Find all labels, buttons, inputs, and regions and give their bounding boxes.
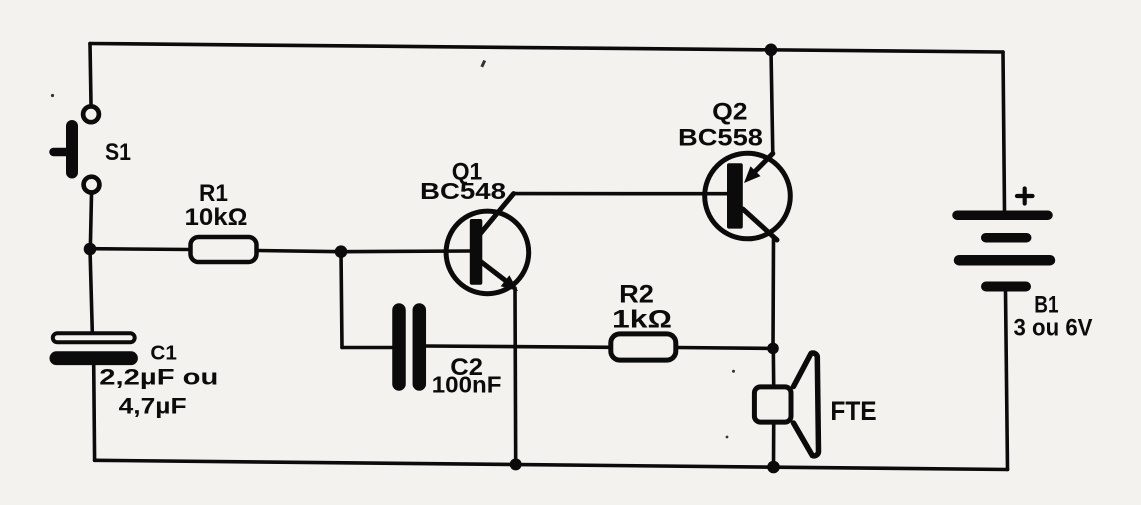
svg-text:R1: R1 xyxy=(199,180,228,207)
transistor Q1 xyxy=(446,194,529,294)
svg-text:BC548: BC548 xyxy=(420,178,506,204)
transistor Q2 xyxy=(705,153,791,240)
wire B1 negative plate to bottom rail xyxy=(1006,291,1008,470)
wire Q1 emitter down to node E xyxy=(513,288,517,464)
capacitor C1 xyxy=(53,333,135,358)
wire node B to Q1 base xyxy=(341,249,471,253)
wire to C2 left plate xyxy=(342,346,393,350)
wire node A down to C1 xyxy=(90,249,92,332)
wire top rail xyxy=(90,44,1003,53)
wire R1 to node B xyxy=(257,251,341,252)
node D xyxy=(767,461,780,474)
svg-text:10kΩ: 10kΩ xyxy=(185,204,248,231)
wire node B down xyxy=(341,252,342,348)
wire R2 to node C xyxy=(676,346,773,350)
node F (top rail junction) xyxy=(765,44,778,57)
battery B1 xyxy=(957,215,1050,286)
switch S1 xyxy=(54,106,100,192)
svg-text:2,2µF ou: 2,2µF ou xyxy=(99,365,218,390)
plus sign xyxy=(1017,189,1033,204)
svg-text:4,7µF: 4,7µF xyxy=(119,394,187,419)
wire top rail junction down to Q2 emitter xyxy=(771,50,773,154)
resistor R1 xyxy=(191,237,257,262)
wire node C to speaker xyxy=(771,348,775,386)
wire Q1 collector to Q2 base xyxy=(514,192,728,196)
node A xyxy=(84,243,97,256)
resistor R2 xyxy=(611,334,676,360)
svg-text:FTE: FTE xyxy=(830,396,876,426)
speaker FTE xyxy=(754,353,818,456)
wire Q2 collector down to node C xyxy=(771,240,775,349)
svg-text:R2: R2 xyxy=(619,281,654,309)
wire C1 to bottom rail xyxy=(92,364,97,460)
svg-text:BC558: BC558 xyxy=(678,125,763,152)
wire left vertical to S1 xyxy=(90,44,91,105)
svg-text:C1: C1 xyxy=(150,343,177,365)
svg-text:1kΩ: 1kΩ xyxy=(612,306,672,334)
wire C2 to R2 xyxy=(426,346,610,347)
speck marks xyxy=(51,60,735,439)
svg-text:3 ou 6V: 3 ou 6V xyxy=(1014,314,1093,341)
wire speaker to node D xyxy=(772,424,776,467)
wire node A to R1 xyxy=(90,247,190,251)
svg-text:S1: S1 xyxy=(105,139,131,166)
wire S1 to node A xyxy=(90,195,91,251)
node C xyxy=(767,343,779,355)
node B xyxy=(335,245,348,258)
wire top rail to B1 positive plate xyxy=(1003,52,1005,211)
wire bottom rail xyxy=(95,460,1008,469)
svg-text:Q2: Q2 xyxy=(712,99,747,126)
capacitor C2 xyxy=(399,310,419,384)
node E xyxy=(510,458,522,470)
svg-text:100nF: 100nF xyxy=(432,371,502,397)
